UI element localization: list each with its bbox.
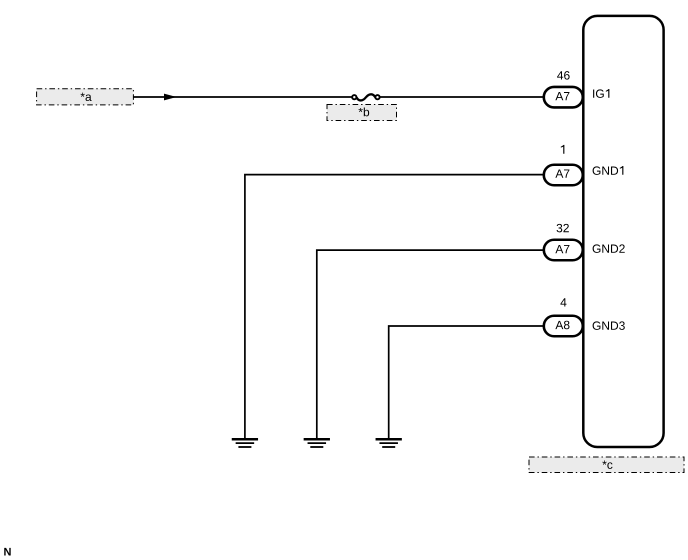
ground G3: [376, 439, 402, 447]
ECU connector body (main body): [583, 16, 663, 447]
fusible link *b: [352, 94, 380, 100]
wire: pin A7 GND1 to ground G1: [245, 175, 546, 439]
pin terminal A7, pin number 46, net IG1: [544, 71, 610, 107]
ground G1: [232, 439, 258, 447]
note marker N: [4, 548, 10, 556]
pin terminal A8, pin number 4, net GND3: [544, 298, 625, 336]
pin terminal A7, pin number 1, net GND1: [544, 145, 624, 185]
arrowhead (current flow direction): [164, 94, 177, 101]
wire: fusible link to pin A7 IG1: [380, 96, 546, 98]
label box *b: [327, 105, 397, 121]
wire: pin A7 GND2 to ground G2: [317, 250, 546, 438]
pin terminal A7, pin number 32, net GND2: [544, 224, 625, 260]
source label box *a: [37, 89, 134, 105]
wire: *a to fusible link: [133, 96, 352, 98]
ground G2: [304, 439, 330, 447]
wire: pin A8 GND3 to ground G3: [389, 326, 546, 439]
connector label box *c: [529, 457, 684, 473]
